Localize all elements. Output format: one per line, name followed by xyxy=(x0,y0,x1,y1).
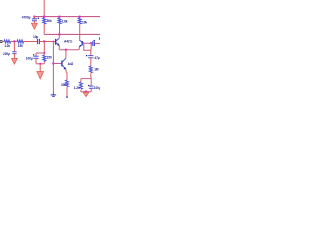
svg-text:100µ: 100µ xyxy=(94,86,100,90)
resistor R4 50k xyxy=(43,18,46,24)
wire rail A (V+) xyxy=(34,16,100,18)
wire R6 to Q2 collector (crosses rail B) xyxy=(79,24,81,41)
wire Q2 base loop xyxy=(84,43,91,50)
wire mid RC bottom xyxy=(36,63,44,65)
ground arrow under C7 xyxy=(12,54,18,64)
wire R7 down xyxy=(90,73,92,79)
node rail A / R6 xyxy=(79,16,81,18)
wire emitter run xyxy=(59,49,79,51)
svg-text:47µ: 47µ xyxy=(94,56,99,60)
svg-text:1.8k: 1.8k xyxy=(62,19,68,23)
wire R5 to node xyxy=(59,24,61,35)
resistor R1 1.2k xyxy=(4,40,11,43)
transistor Q3 xyxy=(62,58,66,69)
node mid RC bottom xyxy=(39,63,41,65)
node rail A / C3 xyxy=(33,16,35,18)
svg-text:1.2k: 1.2k xyxy=(4,44,10,48)
node rail A / R4 xyxy=(43,16,45,18)
wire output chain down xyxy=(90,43,92,55)
capacitor C7 220u xyxy=(12,52,16,54)
svg-text:10k: 10k xyxy=(82,20,87,24)
svg-text:1M: 1M xyxy=(94,67,99,71)
svg-text:100µ: 100µ xyxy=(26,56,33,60)
wire C1 to node xyxy=(40,41,44,43)
svg-text:50k: 50k xyxy=(47,19,52,23)
wire R9 down xyxy=(66,87,68,97)
resistor R3 150 xyxy=(43,53,46,64)
node input filter xyxy=(13,40,15,42)
wire feedback drop xyxy=(52,42,54,93)
node rail B / collector Q1 xyxy=(58,33,60,35)
svg-text:B: B xyxy=(99,37,100,41)
wire input xyxy=(2,41,4,43)
wire C5 to R7 xyxy=(90,58,92,66)
capacitor C3 4700u xyxy=(32,17,39,24)
wire node down to mid RC xyxy=(43,43,45,54)
svg-text:1.2k: 1.2k xyxy=(74,86,80,90)
background xyxy=(0,0,100,100)
svg-text:150: 150 xyxy=(18,44,23,48)
svg-text:10µ: 10µ xyxy=(33,35,38,39)
resistor R6 10k xyxy=(78,18,81,24)
wire bottom block top xyxy=(81,78,91,80)
wire node to Q1 collector xyxy=(58,34,60,38)
wire Q1 emitter down xyxy=(58,46,60,50)
wire node down to C7 xyxy=(13,43,15,52)
capacitor C1 10u coupling xyxy=(38,39,40,44)
wire Q3 collector xyxy=(65,50,67,58)
wire R1 to node xyxy=(11,41,17,43)
ground arrow under C3 xyxy=(31,23,37,29)
capacitor C2 100u xyxy=(33,53,39,64)
ground tick xyxy=(66,96,68,98)
terminal input xyxy=(0,40,2,42)
wire R2 to C1 xyxy=(24,41,38,43)
wire Q3 base xyxy=(53,63,61,65)
node feedback tap xyxy=(53,41,55,43)
resistor R7 1M xyxy=(89,66,92,73)
transistor Q1 xyxy=(56,38,60,46)
wire R4 to rail B corner xyxy=(43,24,45,35)
wire mid RC top xyxy=(36,52,44,54)
resistor R8 1.2k xyxy=(79,79,82,92)
wire Q3 emitter down xyxy=(65,69,68,80)
svg-text:300: 300 xyxy=(61,83,66,87)
node mid RC top xyxy=(43,52,45,54)
node output xyxy=(90,42,92,44)
resistor R2 150 xyxy=(17,40,24,43)
transistor Q2 pnp xyxy=(79,40,84,47)
node rail A / R5 xyxy=(58,16,60,18)
svg-text:4700µ: 4700µ xyxy=(22,15,31,19)
svg-text:150: 150 xyxy=(47,56,52,60)
wire C4 out xyxy=(95,42,100,44)
wire node to Q1 base xyxy=(44,41,55,43)
node emitter run / Q3 collector xyxy=(65,49,67,51)
resistor R9 300 xyxy=(66,80,69,87)
capacitor C4 out xyxy=(93,40,95,46)
wire top feed to V+ rail xyxy=(43,0,45,17)
resistor R5 1.8k xyxy=(58,18,61,24)
capacitor C6 100u xyxy=(88,79,94,92)
node base feed xyxy=(43,40,45,42)
svg-text:220µ: 220µ xyxy=(3,52,10,56)
capacitor C5 47u xyxy=(86,55,93,58)
ground arrow bottom xyxy=(83,92,89,96)
node bottom xyxy=(85,91,87,93)
node Q3 base xyxy=(52,62,54,64)
ground arrow mid xyxy=(37,64,44,79)
svg-text:A42 b: A42 b xyxy=(64,39,72,43)
wire Q2 emitter joint xyxy=(78,47,80,50)
wire bottom block bottom xyxy=(81,91,91,93)
wire rail B xyxy=(44,33,100,35)
ground GND1 xyxy=(51,92,56,96)
svg-text:A42: A42 xyxy=(68,62,74,66)
